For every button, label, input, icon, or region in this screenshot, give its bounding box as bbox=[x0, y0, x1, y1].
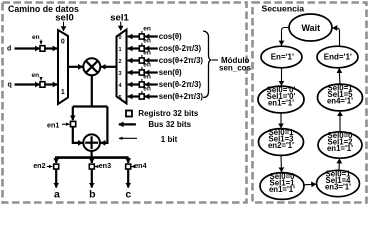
svg-text:en: en bbox=[143, 74, 151, 81]
svg-text:en: en bbox=[143, 86, 151, 93]
svg-text:sen(θ+2π/3): sen(θ+2π/3) bbox=[159, 92, 204, 101]
wire register en1 to adder bbox=[73, 127, 83, 143]
brace grouping trig inputs bbox=[203, 31, 212, 98]
output bus bbox=[55, 156, 129, 159]
row 3: wire label to register bbox=[145, 71, 158, 73]
svg-text:en3='1': en3='1' bbox=[325, 183, 351, 192]
wire register to output b bbox=[91, 169, 93, 188]
row 3: wire register to mux bbox=[128, 71, 140, 73]
svg-text:cos(θ): cos(θ) bbox=[159, 32, 182, 41]
svg-text:1 bit: 1 bit bbox=[161, 135, 178, 144]
svg-text:en: en bbox=[143, 26, 151, 33]
svg-text:a: a bbox=[54, 188, 60, 200]
wire d register to mux bbox=[45, 47, 58, 49]
svg-text:en3: en3 bbox=[99, 161, 111, 170]
wire state5 to state6 bbox=[339, 111, 341, 132]
row 5: enable tick bbox=[141, 91, 143, 94]
svg-text:5: 5 bbox=[118, 95, 121, 101]
wire register to output a bbox=[55, 169, 57, 188]
tap c: wire into register bbox=[127, 158, 129, 163]
register en(q) bbox=[40, 82, 45, 88]
adder bbox=[83, 134, 100, 151]
svg-text:End='1': End='1' bbox=[324, 53, 352, 62]
state2 Sel0=1 Sel1=3 en2='1' bbox=[259, 129, 304, 156]
row 5: wire label to register bbox=[145, 95, 158, 97]
legend 1-bit arrow bbox=[119, 137, 137, 139]
row 1: wire label to register bbox=[145, 47, 158, 49]
wire En to state1 bbox=[281, 68, 283, 86]
svg-text:c: c bbox=[125, 188, 131, 200]
svg-text:Secuencia: Secuencia bbox=[262, 3, 305, 13]
row 0: wire label to register bbox=[145, 35, 158, 37]
state En bbox=[261, 46, 302, 68]
row 0: enable tick bbox=[141, 31, 143, 34]
svg-text:d: d bbox=[7, 46, 11, 53]
state6 Sel0=1 Sel1=5 en4='1' bbox=[318, 84, 363, 111]
row 1: register bbox=[139, 46, 144, 51]
wire sel0 to mux bbox=[63, 22, 65, 31]
svg-text:en: en bbox=[32, 72, 40, 79]
svg-text:en1='1': en1='1' bbox=[327, 144, 353, 153]
row 5: wire register to mux bbox=[128, 95, 140, 97]
row 2: enable tick bbox=[141, 55, 143, 58]
row 0: register bbox=[139, 34, 144, 39]
state4 Sel0=1 Sel1=4 en3='1' bbox=[317, 170, 360, 196]
legend register symbol bbox=[126, 111, 132, 117]
svg-text:en4='1': en4='1' bbox=[327, 97, 353, 106]
svg-text:sen(θ-2π/3): sen(θ-2π/3) bbox=[159, 80, 202, 89]
svg-text:3: 3 bbox=[118, 71, 121, 77]
svg-text:1: 1 bbox=[118, 47, 121, 53]
wire q register to mux bbox=[45, 83, 58, 85]
svg-text:en1='1': en1='1' bbox=[268, 99, 294, 108]
svg-text:0: 0 bbox=[61, 39, 65, 46]
svg-text:Registro 32 bits: Registro 32 bits bbox=[138, 109, 199, 118]
enable hook (d register) bbox=[40, 40, 42, 45]
svg-text:1: 1 bbox=[61, 89, 65, 96]
row 2: wire register to mux bbox=[128, 59, 140, 61]
svg-text:cos(θ-2π/3): cos(θ-2π/3) bbox=[159, 44, 202, 53]
wire en4 to register bbox=[131, 166, 134, 168]
row 2: register bbox=[139, 58, 144, 63]
register en4 bbox=[126, 164, 131, 169]
row 4: enable tick bbox=[141, 79, 143, 82]
wire state3 to state4 bbox=[304, 183, 316, 186]
wire mux sel0 to multiplier bbox=[68, 66, 83, 68]
row 2: wire label to register bbox=[145, 59, 158, 61]
legend bus arrow bbox=[119, 123, 136, 125]
wire state1 to state2 bbox=[280, 113, 282, 128]
svg-text:en: en bbox=[32, 34, 40, 41]
svg-text:en2: en2 bbox=[33, 161, 45, 170]
row 3: register bbox=[139, 70, 144, 75]
wire adder output bbox=[90, 151, 92, 158]
svg-text:en: en bbox=[143, 38, 151, 45]
multiplier bbox=[83, 58, 100, 75]
wire en1 to register bbox=[62, 123, 70, 125]
wire d to register bbox=[15, 47, 40, 49]
register en2 bbox=[54, 164, 59, 169]
svg-text:sel1: sel1 bbox=[110, 13, 129, 24]
svg-text:Wait: Wait bbox=[301, 23, 320, 33]
svg-text:cos(θ+2π/3): cos(θ+2π/3) bbox=[159, 56, 204, 65]
row 4: wire register to mux bbox=[128, 83, 140, 85]
register en(d) bbox=[40, 46, 45, 52]
svg-text:en: en bbox=[143, 62, 151, 69]
row 0: wire register to mux bbox=[128, 35, 140, 37]
svg-text:2: 2 bbox=[118, 59, 121, 65]
svg-text:en: en bbox=[143, 50, 151, 57]
wire brace to module label bbox=[212, 59, 218, 61]
register en1 bbox=[71, 121, 76, 126]
row 4: wire label to register bbox=[145, 83, 158, 85]
svg-text:en1: en1 bbox=[47, 120, 59, 129]
wire Wait to En bbox=[282, 28, 290, 46]
row 4: register bbox=[139, 82, 144, 87]
wire product to adder (right branch) bbox=[101, 107, 108, 143]
state1 Sel0='0' Sel1='0' en1='1' bbox=[258, 86, 304, 113]
svg-text:Bus 32 bits: Bus 32 bits bbox=[148, 120, 191, 129]
wire state4 to state5 bbox=[338, 159, 341, 171]
svg-text:sen(θ): sen(θ) bbox=[159, 68, 182, 77]
enable hook (q register) bbox=[40, 77, 42, 80]
svg-text:sel0: sel0 bbox=[55, 13, 74, 24]
row 1: wire register to mux bbox=[128, 47, 140, 49]
tap a: wire into register bbox=[55, 158, 57, 163]
mux sel1 bbox=[117, 30, 127, 104]
right panel dashed frame bbox=[253, 3, 367, 203]
svg-text:en1='1': en1='1' bbox=[269, 185, 295, 194]
register en3 bbox=[89, 164, 94, 169]
wire q to register bbox=[15, 83, 40, 85]
wire multiplier output bbox=[91, 75, 93, 107]
row 1: enable tick bbox=[141, 43, 143, 46]
state Wait bbox=[289, 14, 332, 41]
svg-text:sen_cos: sen_cos bbox=[219, 63, 252, 72]
svg-text:en4: en4 bbox=[134, 161, 146, 170]
tap b: wire into register bbox=[91, 158, 93, 163]
svg-text:q: q bbox=[7, 81, 11, 88]
wire state6 to End bbox=[338, 68, 341, 84]
svg-text:En='1': En='1' bbox=[271, 53, 294, 62]
row 3: enable tick bbox=[141, 67, 143, 70]
state3 Sel0=0 Sel1=1 en1='1' bbox=[260, 173, 304, 200]
wire End to Wait bbox=[333, 28, 340, 47]
svg-text:b: b bbox=[89, 188, 95, 200]
state5 Sel0=0 Sel1=2 en1='1' bbox=[318, 132, 362, 158]
wire mux sel1 to multiplier bbox=[101, 66, 117, 68]
wire sel1 to mux bbox=[120, 22, 122, 31]
left panel dashed frame bbox=[3, 3, 247, 203]
svg-text:0: 0 bbox=[118, 35, 121, 41]
wire en3 to register bbox=[95, 166, 98, 168]
mux sel0 bbox=[58, 30, 68, 104]
wire state2 to state3 bbox=[280, 155, 283, 172]
state End bbox=[317, 46, 358, 68]
wire en2 to register bbox=[47, 166, 53, 168]
wire product tee bbox=[73, 105, 108, 107]
wire register to output c bbox=[127, 169, 129, 188]
row 5: register bbox=[139, 94, 144, 99]
svg-text:en2='1': en2='1' bbox=[268, 141, 294, 150]
